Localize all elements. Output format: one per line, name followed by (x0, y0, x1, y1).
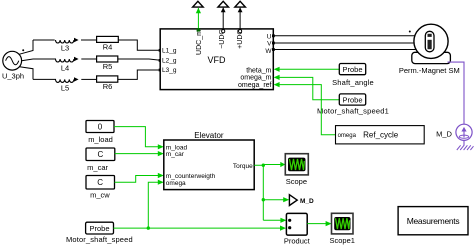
wire branch 2 left (33, 58, 56, 60)
wire branch 3 left (33, 78, 56, 80)
wire omega_m from Probe1 to VFD (274, 75, 340, 100)
wire UDC_m to T1 (196, 8, 201, 32)
svg-text:L4: L4 (61, 64, 69, 73)
svg-text:R6: R6 (103, 82, 113, 91)
Elevator subsystem block (164, 131, 254, 190)
svg-text:V: V (267, 41, 272, 48)
resistor R4 (97, 36, 119, 51)
svg-text:0: 0 (98, 122, 103, 131)
svg-text:omega: omega (166, 180, 186, 187)
svg-text:L1_g: L1_g (162, 47, 177, 54)
svg-text:Product: Product (284, 236, 311, 245)
svg-text:omega_m: omega_m (240, 75, 271, 82)
wire L4 to R5 (81, 58, 96, 60)
wire R4 to VFD L1_g (118, 40, 161, 52)
Ref_cycle block (336, 126, 425, 144)
constant block m_cw C (86, 176, 115, 200)
svg-text:C: C (97, 178, 103, 187)
wire R5 to VFD L2_g (118, 59, 162, 62)
scope Scope (285, 154, 308, 187)
port triangle T1 (193, 1, 204, 7)
svg-text:m_car: m_car (87, 163, 108, 172)
svg-text:R4: R4 (103, 43, 113, 52)
probe Motor_shaft_speed1 (317, 94, 389, 116)
goto tag M_D (289, 195, 314, 206)
wire probe to omega and product (114, 180, 287, 231)
rotational reference M_D (456, 124, 472, 145)
svg-text:Measurements: Measurements (407, 216, 460, 226)
svg-text:W: W (265, 48, 272, 55)
svg-text:U: U (267, 33, 272, 40)
svg-text:Elevator: Elevator (194, 131, 224, 140)
wire W to machine (272, 48, 417, 51)
svg-text:Scope1: Scope1 (329, 236, 354, 245)
svg-text:M_D: M_D (300, 198, 314, 205)
svg-text:L3: L3 (61, 44, 69, 53)
node M_D label (436, 130, 452, 139)
inductor L5 (56, 77, 79, 92)
probe Shaft_angle (332, 64, 374, 87)
svg-text:Motor_shaft_speed: Motor_shaft_speed (66, 235, 133, 244)
inductor L4 (56, 57, 79, 73)
constant block m_car C (86, 148, 115, 172)
svg-text:m_load: m_load (88, 135, 113, 144)
scope Scope1 (329, 213, 354, 245)
svg-text:L5: L5 (61, 83, 69, 92)
Perm.-Magnet SM machine (399, 24, 460, 75)
svg-text:omega_ref: omega_ref (238, 82, 272, 89)
port triangle T2 (218, 1, 229, 7)
wire branch 1 left (33, 39, 55, 41)
svg-text:Ref_cycle: Ref_cycle (363, 131, 399, 140)
wire U to machine (272, 34, 416, 37)
svg-text:UDC_m: UDC_m (196, 30, 203, 55)
resistor R6 (97, 76, 118, 91)
probe Motor_shaft_speed (66, 222, 133, 244)
svg-text:Probe: Probe (89, 224, 109, 233)
svg-text:Perm.-Magnet SM: Perm.-Magnet SM (399, 66, 460, 75)
svg-text:VFD: VFD (208, 55, 227, 65)
svg-text:Probe: Probe (342, 65, 362, 74)
wire R6 to VFD L3_g (118, 69, 162, 80)
svg-text:m_car: m_car (166, 151, 185, 158)
VFD block U1 (160, 29, 273, 90)
svg-text:Scope: Scope (286, 177, 307, 186)
ground hatching (457, 145, 474, 150)
svg-text:L2_g: L2_g (162, 58, 177, 65)
port triangle T3 (235, 1, 246, 7)
wire theta_m from Probe to VFD (274, 67, 340, 72)
svg-text:L3_g: L3_g (162, 67, 177, 74)
svg-text:M_D: M_D (436, 130, 452, 139)
wire source to branch 3 (20, 67, 34, 80)
svg-text:Probe: Probe (342, 95, 362, 104)
svg-text:Shaft_angle: Shaft_angle (332, 78, 374, 87)
wire source to branch 1 (20, 40, 34, 54)
resistor R5 (97, 56, 118, 71)
wire Torque to scope / M_D / product (254, 162, 289, 223)
product block (284, 213, 311, 245)
AC source U_3ph (2, 51, 24, 80)
svg-text:Motor_shaft_speed1: Motor_shaft_speed1 (317, 107, 389, 116)
wire L5 to R6 (81, 78, 96, 80)
wire V to machine (272, 42, 414, 45)
inductor L3 (56, 38, 79, 53)
svg-text:Torque: Torque (233, 163, 253, 170)
wire -UDC to T2 (221, 7, 226, 32)
wire L3 to R4 (81, 39, 97, 41)
wire 0 to m_load (114, 127, 164, 150)
svg-text:m_cw: m_cw (90, 190, 110, 199)
polarity dot (22, 49, 24, 51)
wire +UDC to T3 (238, 7, 243, 32)
svg-text:U_3ph: U_3ph (2, 71, 24, 80)
wire machine to torque reference (physical) (448, 62, 465, 124)
wire C to m_car (115, 151, 164, 156)
svg-text:omega: omega (338, 133, 357, 139)
wire C to m_counterweigth (115, 173, 164, 182)
wire product to Scope1 (307, 221, 331, 226)
constant block 0 (86, 121, 114, 144)
svg-text:R5: R5 (103, 62, 113, 71)
svg-text:theta_m: theta_m (246, 67, 271, 74)
Measurements block (398, 207, 468, 235)
wire source to branch 2 (22, 59, 33, 61)
wire omega_ref from Ref_cycle to VFD (274, 82, 336, 135)
svg-text:C: C (98, 150, 104, 159)
